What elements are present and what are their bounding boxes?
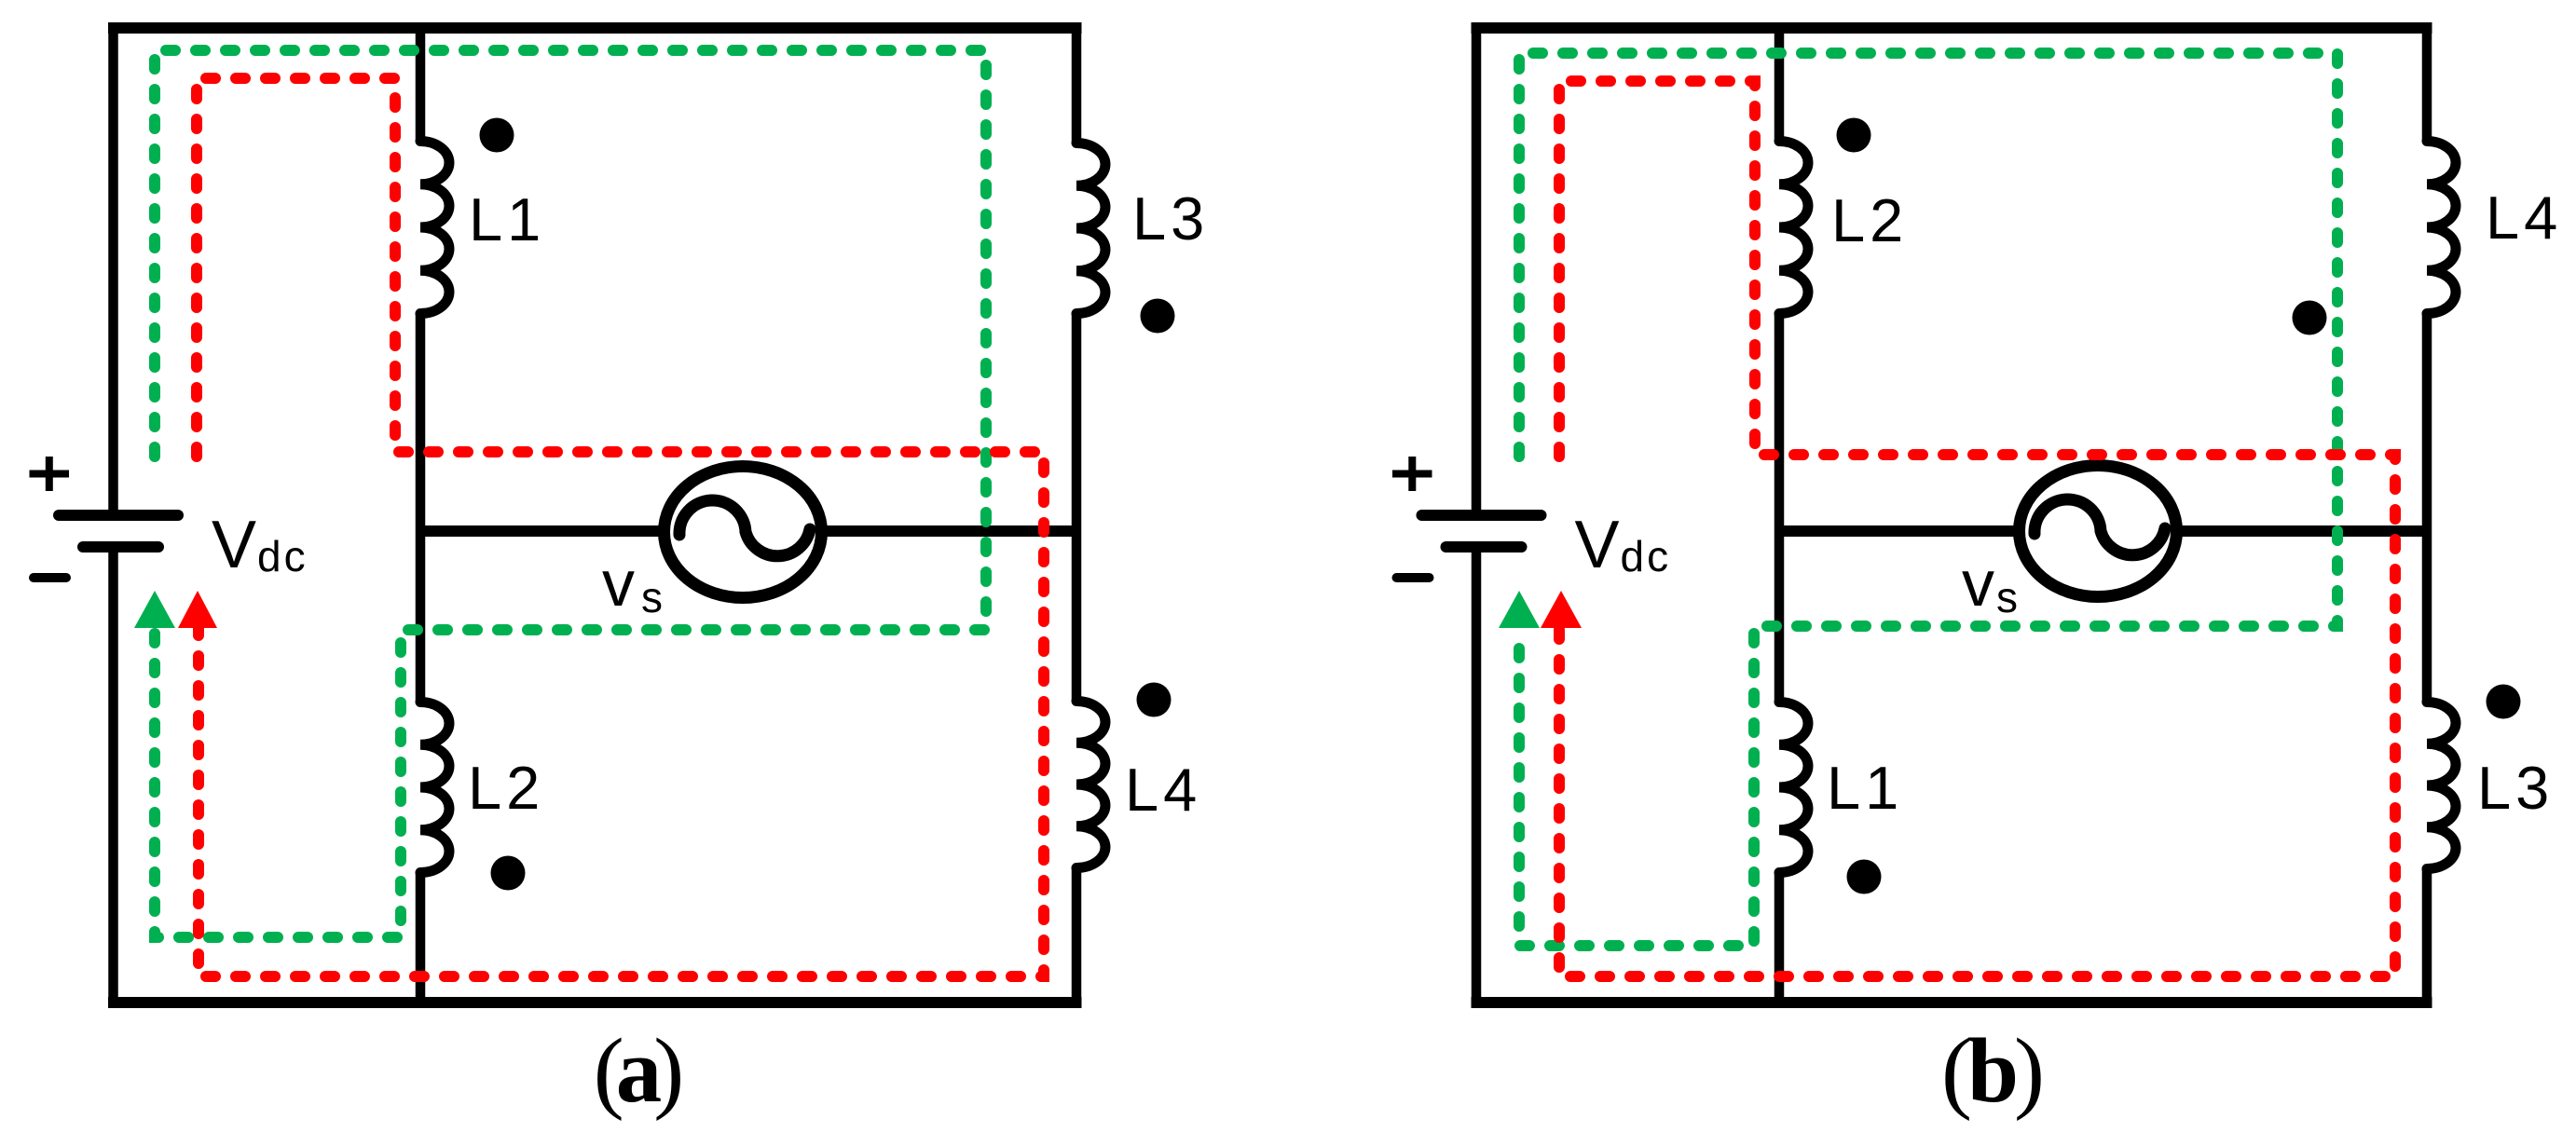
plus sign (a) [30,457,70,491]
inductor L4 coil (a) [1076,702,1105,868]
inductor L3 coil (a) [1076,143,1105,314]
svg-text:V: V [1575,508,1620,582]
wire left rail lower (a) [108,551,118,1007]
svg-text:L2: L2 [468,754,544,822]
minus sign (b) [1397,573,1430,582]
dot L4 polarity (a) [1137,683,1172,717]
battery Vdc short plate (a) [83,541,158,553]
svg-text:s: s [641,573,663,621]
svg-text:L3: L3 [1132,184,1209,252]
wire top rail (a) [108,22,1082,34]
wire right rail middle (a) [1072,314,1082,702]
wire left rail lower (b) [1472,551,1482,1007]
dot L3 polarity (a) [1141,299,1175,334]
svg-text:(b): (b) [1941,1020,2041,1122]
svg-text:L4: L4 [2486,184,2562,252]
wire middle vertical upper (a) [416,22,426,142]
ac source sine wave (b) [2035,499,2165,555]
inductor L3 coil (b) [2427,703,2456,869]
wire top rail (b) [1472,22,2432,34]
green arrow (b) [1499,591,1540,628]
wire right rail middle (b) [2422,314,2432,703]
wire bottom rail (b) [1472,997,2432,1008]
wire middle horizontal rail (a) [420,525,1076,537]
red arrow (a) [178,591,217,628]
wire left rail upper (a) [108,22,118,512]
svg-text:L4: L4 [1125,756,1201,824]
wire bottom rail (a) [108,997,1082,1008]
inductor L1 coil (b) [1779,703,1808,873]
dot L2 polarity (b) [1837,118,1871,153]
battery Vdc long plate (b) [1422,510,1541,521]
svg-text:dc: dc [257,532,308,580]
green current loop (a) [155,50,986,937]
minus sign (a) [34,573,66,582]
wire middle horizontal rail (b) [1779,525,2427,537]
svg-text:L1: L1 [1827,754,1903,822]
wire right rail lower (a) [1072,868,1082,1008]
wire right rail upper (a) [1072,22,1082,143]
inductor L1 coil (a) [420,142,449,314]
battery Vdc long plate (a) [59,510,178,521]
red arrow (b) [1541,591,1582,628]
svg-text:s: s [1996,573,2018,621]
svg-text:L1: L1 [469,185,545,253]
svg-text:L3: L3 [2477,754,2554,822]
battery Vdc short plate (b) [1446,541,1522,553]
plus sign (b) [1392,457,1432,491]
red current loop (b) [1559,81,2395,976]
dot L2 polarity (a) [491,856,526,891]
dot L4 polarity (b) [2293,301,2327,335]
svg-text:v: v [602,547,635,620]
green current loop (b) [1519,53,2337,946]
svg-text:v: v [1962,547,1994,620]
wire right rail upper (b) [2422,22,2432,142]
svg-text:L2: L2 [1831,186,1908,254]
wire middle vertical mid (b) [1774,314,1785,703]
inductor L2 coil (a) [420,703,449,873]
inductor L2 coil (b) [1779,142,1808,314]
ac source vs ellipse (a) [665,467,822,598]
inductor L4 coil (b) [2427,142,2456,314]
wire left rail upper (b) [1472,22,1482,512]
svg-text:V: V [212,508,256,582]
wire middle vertical lower (a) [416,873,426,1003]
red current loop (a) [197,78,1044,976]
wire middle vertical mid (a) [416,314,426,703]
green arrow (a) [134,591,175,628]
ac source vs ellipse (b) [2020,466,2177,597]
dot L1 polarity (b) [1847,860,1882,894]
svg-text:dc: dc [1621,532,1672,580]
wire right rail lower (b) [2422,869,2432,1008]
wire middle vertical lower (b) [1774,873,1785,1003]
svg-text:(a): (a) [594,1020,680,1122]
ac source sine wave (a) [679,500,810,556]
dot L3 polarity (b) [2487,685,2521,719]
wire middle vertical upper (b) [1774,22,1785,142]
dot L1 polarity (a) [480,118,514,153]
